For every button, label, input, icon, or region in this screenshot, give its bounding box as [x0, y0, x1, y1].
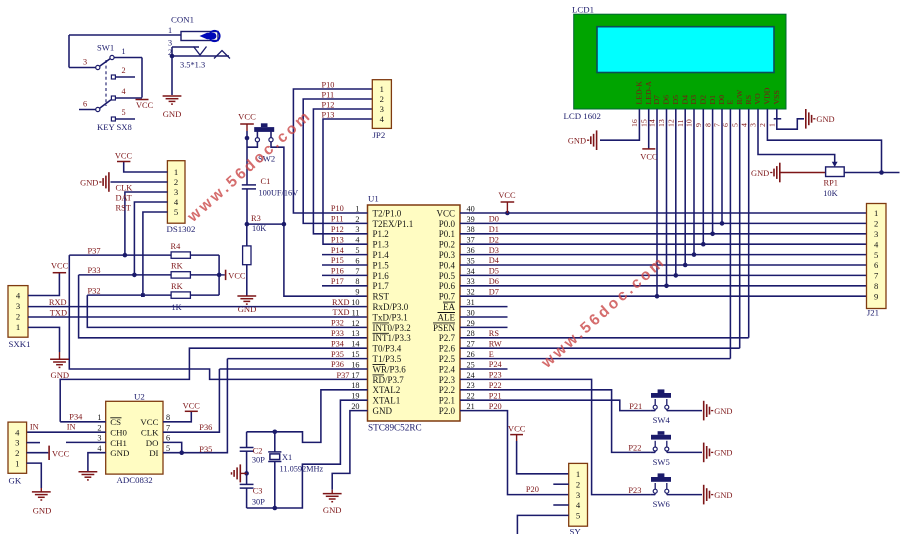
U1 pin 1 number [355, 204, 359, 213]
wire LCD D3 column [693, 109, 695, 255]
svg-text:39: 39 [467, 215, 475, 224]
wire SY pin2 stub [553, 483, 568, 485]
svg-text:VSS: VSS [772, 90, 781, 104]
GK pin 2 number [15, 448, 19, 458]
svg-text:P2.4: P2.4 [439, 364, 456, 374]
wire TXD row [28, 316, 368, 318]
wire D1 row [460, 233, 867, 235]
svg-text:D1: D1 [489, 225, 499, 234]
U1 pin 5 number [355, 246, 359, 255]
wire P10 U1-JP2 [293, 89, 372, 213]
svg-text:KEY SX8: KEY SX8 [97, 122, 132, 132]
U1 pin 11 number [352, 308, 360, 317]
U1 pin 19 number [351, 392, 359, 401]
svg-text:2: 2 [355, 215, 359, 224]
svg-text:D2: D2 [489, 235, 499, 244]
IC U1 box [368, 205, 461, 421]
svg-text:18: 18 [351, 381, 359, 390]
connector JP2 box [372, 80, 391, 129]
RP1 value label [823, 189, 837, 198]
wire P12 U1-JP2 [313, 109, 372, 234]
svg-text:10: 10 [685, 119, 694, 127]
J21 pin 7 number [874, 271, 879, 281]
svg-text:DS1302: DS1302 [167, 224, 196, 234]
LCD pin name D2 [699, 95, 708, 105]
svg-text:3: 3 [355, 225, 359, 234]
svg-text:RW: RW [489, 339, 502, 348]
svg-text:P37: P37 [88, 246, 101, 255]
svg-text:13: 13 [351, 329, 359, 338]
pushbutton SW6 [651, 473, 671, 494]
svg-text:3: 3 [576, 490, 580, 500]
svg-text:9: 9 [694, 123, 703, 127]
svg-text:4: 4 [380, 114, 385, 124]
connector SY box [569, 463, 588, 526]
wire cap rail mid [246, 451, 248, 484]
svg-text:22: 22 [467, 392, 475, 401]
net label P11 at U1 [331, 215, 344, 224]
svg-text:P2.1: P2.1 [439, 396, 455, 406]
svg-text:INT0/P3.2: INT0/P3.2 [373, 323, 411, 333]
wire DS1302 pin5 RST [143, 212, 168, 295]
LCD pin name VO [753, 93, 762, 105]
U1 pin 29 name [433, 323, 456, 333]
wire SW4 to gnd [667, 410, 702, 412]
junction D0 [720, 221, 725, 226]
svg-text:2: 2 [97, 423, 101, 432]
LCD pin number 10 [685, 119, 694, 127]
svg-text:P0.1: P0.1 [439, 229, 455, 239]
svg-text:31: 31 [467, 298, 475, 307]
svg-text:5: 5 [174, 207, 178, 217]
svg-text:P20: P20 [526, 485, 539, 494]
svg-text:P1.7: P1.7 [373, 281, 390, 291]
J21 pin 6 number [874, 260, 879, 270]
watermark 2 [538, 253, 670, 372]
wire LCD VO to RP1 [758, 109, 835, 162]
wire pull-up common [218, 255, 220, 295]
svg-text:R/W: R/W [735, 89, 744, 104]
junction RP1-VDD [879, 170, 884, 175]
ground SW4 [704, 401, 733, 421]
LCD1 ref label [572, 5, 594, 15]
svg-text:D1: D1 [708, 95, 717, 105]
svg-text:VCC: VCC [51, 262, 69, 271]
LCD1 body [574, 14, 786, 109]
svg-text:GND: GND [714, 449, 732, 458]
svg-text:1: 1 [355, 204, 359, 213]
svg-text:VCC: VCC [140, 417, 158, 427]
wire CON1-SW1 link [68, 35, 70, 68]
svg-text:DO: DO [146, 438, 159, 448]
net label P36 at U1 [331, 360, 344, 369]
ground LCD backlight [568, 130, 597, 150]
svg-text:J21: J21 [867, 308, 879, 318]
JP2 pin 1 number [380, 84, 384, 94]
wire SW1 pin6 [79, 109, 96, 111]
svg-text:RxD/P3.0: RxD/P3.0 [373, 302, 409, 312]
net label P36 at U2 [199, 423, 212, 432]
ground CON1 [163, 96, 182, 119]
svg-text:CH0: CH0 [110, 428, 127, 438]
svg-text:E: E [489, 350, 494, 359]
wire LCD R/W column [739, 109, 741, 348]
svg-text:VCC: VCC [508, 424, 526, 434]
connector SXK1 box [8, 286, 28, 338]
wire cap rail lower [246, 488, 248, 508]
svg-text:CH1: CH1 [110, 438, 127, 448]
svg-text:VCC: VCC [228, 271, 246, 280]
svg-text:DAT: DAT [116, 193, 132, 202]
svg-text:6: 6 [83, 100, 87, 109]
wire LCD VDD [767, 109, 881, 173]
svg-text:RK: RK [171, 282, 183, 291]
svg-text:8: 8 [874, 281, 878, 291]
wire SW2 right leg [271, 142, 284, 224]
wire GK4 to CH0 [27, 431, 106, 433]
wire DS1302 pin1 VCC [124, 162, 168, 173]
svg-text:VCC: VCC [183, 401, 201, 410]
junction CON1 sleeve [170, 54, 175, 59]
svg-text:10K: 10K [823, 189, 837, 198]
power VCC SW1 [136, 100, 154, 111]
svg-text:4: 4 [739, 123, 748, 127]
SW1 pin4 pad [111, 87, 125, 100]
U1 pin 26 number [467, 350, 475, 359]
CON1 pin 3 number [168, 39, 172, 48]
LCD pin number 2 [758, 123, 767, 127]
U2 pin 2 number [97, 423, 101, 432]
U1 pin 40 number [467, 204, 475, 213]
net label P32 at U1 [331, 319, 344, 328]
U2 pin name CH0 [110, 428, 127, 438]
wire D6 row [460, 285, 867, 287]
wire SW5 to gnd [667, 451, 702, 453]
svg-text:P10: P10 [331, 204, 344, 213]
U1 pin 27 name [439, 344, 456, 354]
U2 pin 4 number [97, 444, 101, 453]
power VCC SXK1 [51, 262, 69, 273]
U1 pin 7 name [373, 271, 390, 281]
svg-text:P35: P35 [331, 350, 344, 359]
U1 pin 14 name [373, 344, 402, 354]
pushbutton SW5 [651, 431, 671, 452]
U1 pin 15 number [351, 350, 359, 359]
IC U2 ref [134, 392, 145, 402]
U1 pin 18 number [351, 381, 359, 390]
DS1302 pin 3 number [174, 187, 178, 197]
power VCC U1 [498, 191, 516, 213]
U1 WR overline [373, 364, 386, 366]
SW1 pin1 number [122, 47, 126, 56]
U1 pin 20 name [373, 406, 393, 416]
svg-text:2: 2 [122, 66, 126, 75]
svg-text:P36: P36 [199, 423, 212, 432]
wire GK pin3 stub [27, 442, 40, 444]
SY pin 4 number [576, 500, 581, 510]
U1 pin 35 number [467, 256, 475, 265]
U1 pin 30 number [467, 308, 475, 317]
svg-text:GK: GK [9, 476, 22, 486]
U1 pin 9 name [373, 292, 390, 302]
svg-text:P13: P13 [331, 235, 344, 244]
svg-text:VCC: VCC [52, 450, 70, 459]
svg-text:5: 5 [730, 123, 739, 127]
svg-text:7: 7 [355, 267, 359, 276]
crystal X1 ref [282, 453, 292, 462]
DS1302 pin 5 number [174, 207, 178, 217]
net label P33 left [88, 266, 101, 275]
wire D3 row [460, 254, 867, 256]
wire U2 VCC [163, 411, 191, 422]
U1 pin 8 name [373, 281, 390, 291]
U1 pin 2 name [373, 219, 414, 229]
net label D1 [489, 225, 499, 234]
svg-text:VCC: VCC [498, 191, 516, 200]
LCD pin number 14 [648, 119, 657, 127]
jack size label [180, 61, 205, 70]
LCD pin number 5 [730, 123, 739, 127]
junction pull-up VCC [217, 273, 222, 278]
net label P12 at JP2 [322, 100, 335, 109]
power VCC LCD backlight [640, 149, 658, 161]
ground caps [232, 464, 247, 482]
svg-text:LED-K: LED-K [635, 81, 644, 105]
svg-text:20: 20 [351, 402, 359, 411]
ground reset [237, 296, 256, 314]
svg-text:4: 4 [576, 500, 581, 510]
wire DS1302 pin2 GND [111, 181, 168, 183]
wire VCC to SY pin1 [517, 441, 569, 474]
svg-text:P24: P24 [489, 360, 503, 369]
junction D4 [683, 263, 688, 268]
wire LCD D5 column [675, 109, 677, 275]
wire P11 U1-JP2 [303, 99, 372, 223]
svg-text:8: 8 [355, 277, 359, 286]
svg-text:P34: P34 [69, 413, 83, 422]
svg-text:P11: P11 [331, 215, 344, 224]
svg-text:RS: RS [744, 95, 753, 105]
svg-text:LCD 1602: LCD 1602 [564, 111, 601, 121]
svg-text:5: 5 [166, 444, 170, 453]
pushbutton SW2 [254, 123, 274, 141]
LCD pin name D1 [708, 95, 717, 105]
DS1302 pin 1 number [174, 167, 178, 177]
svg-text:GND: GND [238, 304, 257, 314]
wire LCD VSS gnd [774, 109, 804, 129]
SW1 pin5 pad [111, 108, 135, 121]
crystal X1 value [280, 464, 324, 473]
svg-text:2: 2 [380, 94, 384, 104]
U1 pin 36 number [467, 246, 475, 255]
svg-text:30P: 30P [252, 497, 265, 506]
wire U2 GND [88, 453, 106, 472]
connector GK box [8, 422, 27, 473]
capacitor C2 [240, 447, 265, 465]
LCD pin name LED-K [635, 81, 644, 105]
wire SXK1 pin1 gnd [28, 327, 60, 359]
wire P23 to SW6 [460, 379, 651, 494]
wire SY pin4 stub [553, 504, 568, 506]
svg-text:C1: C1 [261, 177, 271, 186]
U1 pin 12 number [351, 319, 359, 328]
LCD pin name D0 [717, 95, 726, 105]
U1 EA overline [443, 301, 455, 303]
svg-text:3: 3 [874, 229, 878, 239]
resistor RK label b [171, 282, 183, 291]
svg-text:21: 21 [467, 402, 475, 411]
power VCC DS1302 [115, 152, 133, 162]
IC U2 part label [117, 475, 153, 485]
svg-text:D0: D0 [489, 215, 499, 224]
net label RXD at U1 [332, 298, 350, 307]
svg-text:RP1: RP1 [824, 179, 838, 188]
svg-text:GND: GND [568, 137, 586, 146]
RP1 ref label [824, 179, 838, 188]
svg-text:C3: C3 [253, 486, 263, 495]
U1 pin 14 number [351, 340, 359, 349]
U1 pin 11 name [373, 312, 408, 322]
LCD1 screen [597, 27, 774, 73]
U1 pin 32 name [439, 292, 456, 302]
svg-text:33: 33 [467, 277, 475, 286]
wire P24 stub [460, 368, 508, 370]
SY pin 2 number [576, 479, 580, 489]
wire RXD row [28, 306, 368, 308]
U1 pin 23 number [467, 381, 475, 390]
U2 pin name CLK [141, 428, 159, 438]
net label DAT [116, 193, 132, 202]
wire D4 row [460, 264, 867, 266]
U2 CS overline [110, 417, 121, 419]
svg-text:4: 4 [97, 444, 101, 453]
svg-text:T1/P3.5: T1/P3.5 [373, 354, 402, 364]
power VCC pull-ups [219, 270, 246, 281]
svg-text:P11: P11 [322, 90, 335, 99]
U1 pin 6 name [373, 260, 390, 270]
ground crystal [323, 494, 342, 515]
svg-text:3: 3 [174, 187, 178, 197]
svg-text:IN: IN [30, 423, 39, 432]
ground SW6 [704, 485, 733, 505]
svg-text:SW6: SW6 [653, 499, 671, 509]
net label P13 at JP2 [322, 110, 335, 119]
U1 pin 13 name [373, 333, 412, 343]
junction CLK-P37 [123, 253, 128, 258]
wire ALE stub [460, 316, 508, 318]
U1 pin 21 number [467, 402, 475, 411]
U1 pin 17 name [373, 375, 405, 385]
resistor RK body a [171, 272, 190, 278]
U1 pin 3 number [355, 225, 359, 234]
LCD pin name E [726, 100, 735, 105]
svg-text:D3: D3 [489, 246, 499, 255]
svg-text:T2/P1.0: T2/P1.0 [373, 208, 402, 218]
svg-text:1: 1 [15, 458, 19, 468]
U1 pin 30 name [438, 312, 456, 322]
svg-text:GND: GND [163, 109, 182, 119]
svg-text:E: E [726, 100, 735, 105]
svg-text:3: 3 [83, 58, 87, 67]
LCD pin number 4 [739, 123, 748, 127]
wire P34 net [60, 348, 367, 422]
pushbutton SW4 [651, 389, 671, 410]
connector J21 label [867, 308, 879, 318]
J21 pin 2 number [874, 219, 878, 229]
net label P35 at U1 [331, 350, 344, 359]
wire LCD pin15 vcc [648, 109, 650, 149]
svg-text:2: 2 [758, 123, 767, 127]
switch SW1 label [97, 43, 114, 53]
svg-text:4: 4 [122, 87, 126, 96]
svg-text:D5: D5 [489, 267, 499, 276]
DS1302 pin 4 number [174, 197, 179, 207]
svg-text:38: 38 [467, 225, 475, 234]
U2 pin 6 number [166, 434, 170, 443]
svg-text:3: 3 [16, 301, 20, 311]
svg-text:4: 4 [16, 291, 21, 301]
svg-text:40: 40 [467, 204, 475, 213]
LCD pin name VDD [763, 87, 772, 104]
svg-text:RK: RK [171, 262, 183, 271]
net label P37 at U1 [337, 371, 350, 380]
junction DAT-P33 [132, 273, 137, 278]
svg-text:SW4: SW4 [653, 415, 671, 425]
wire EA stub [460, 306, 508, 308]
U1 pin 4 number [355, 236, 359, 245]
svg-text:TxD/P3.1: TxD/P3.1 [373, 312, 408, 322]
net label P17 at U1 [331, 277, 344, 286]
wire GK pin1 gnd [27, 463, 42, 492]
LCD pin number 16 [630, 119, 639, 127]
U2 pin name CS [110, 417, 121, 427]
power VCC GK [49, 446, 70, 460]
wire XTAL2 net [247, 390, 368, 443]
wire U2 DI to P35 [163, 359, 227, 453]
svg-text:19: 19 [351, 392, 359, 401]
svg-text:P0.7: P0.7 [439, 292, 456, 302]
svg-text:30: 30 [467, 308, 475, 317]
svg-text:CON1: CON1 [171, 15, 194, 25]
wire RST to U1 pin9 [284, 224, 368, 296]
U1 pin 1 name [373, 208, 402, 218]
svg-text:5: 5 [874, 250, 878, 260]
svg-text:6: 6 [874, 260, 879, 270]
potentiometer RP1 body [826, 167, 845, 177]
LCD type label [564, 111, 601, 121]
U1 pin 16 number [351, 360, 359, 369]
svg-text:X1: X1 [282, 453, 292, 462]
U1 pin 34 name [439, 271, 456, 281]
svg-text:PSEN: PSEN [433, 323, 456, 333]
power VCC SY [508, 424, 526, 442]
wire R4 right lead [190, 254, 219, 256]
junction crystal top [273, 430, 278, 435]
ground SW5 [704, 443, 733, 463]
svg-text:GND: GND [714, 407, 732, 416]
connector SY label [570, 527, 582, 534]
junction D7 [655, 294, 660, 299]
J21 pin 1 number [874, 208, 878, 218]
svg-text:32: 32 [467, 288, 475, 297]
svg-text:INT1/P3.3: INT1/P3.3 [373, 333, 412, 343]
svg-text:GND: GND [50, 370, 69, 380]
svg-text:P36: P36 [331, 360, 344, 369]
net label D6 [489, 277, 499, 286]
resistor value 1K [172, 303, 182, 312]
svg-text:25: 25 [467, 360, 475, 369]
wire reset rail upper [246, 131, 248, 185]
